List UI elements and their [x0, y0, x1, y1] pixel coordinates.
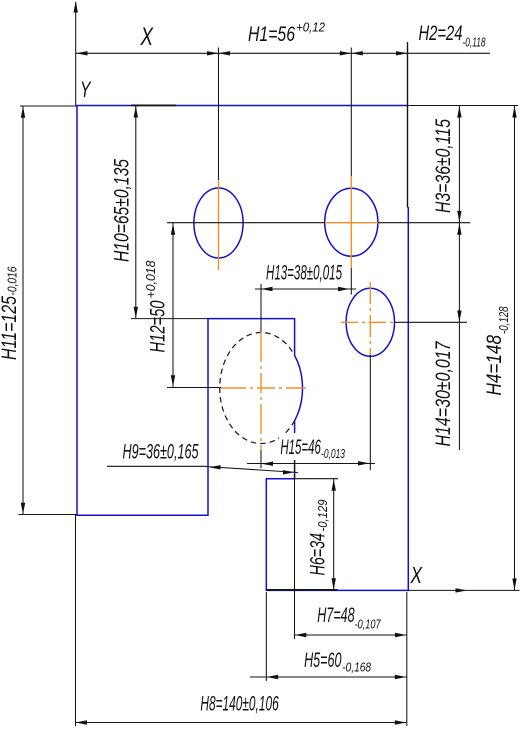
H14 arrows: [457, 223, 461, 235]
svg-text:H8=140±0,106: H8=140±0,106: [200, 693, 278, 716]
H9 text underline: [107, 465, 206, 467]
svg-text:-0,129: -0,129: [315, 500, 330, 532]
svg-text:-0,107: -0,107: [355, 617, 382, 632]
H10 bottom terminal (step edge extension): [131, 318, 208, 320]
centerline E2 horizontal (orange): [325, 222, 378, 224]
svg-text:+0,018: +0,018: [143, 260, 158, 299]
H5 left extension: [265, 592, 267, 681]
svg-text:H2=24: H2=24: [419, 22, 463, 45]
svg-text:+0,12: +0,12: [296, 20, 326, 35]
svg-text:H4=148: H4=148: [483, 335, 506, 396]
centerline E4 vertical (orange dash-dot): [260, 332, 262, 450]
H8 left extension: [75, 515, 77, 726]
svg-text:H11=125: H11=125: [0, 296, 21, 360]
svg-text:-0,118: -0,118: [463, 35, 486, 50]
H12 arrows: [171, 223, 175, 235]
H11 bottom terminal: [19, 514, 78, 516]
svg-text:H5=60: H5=60: [304, 649, 342, 672]
centerline E3 vertical (orange dash-dot): [369, 282, 371, 355]
H8/H7/H5 right extension: [406, 592, 408, 726]
top dimension line (X, H1, H2): [76, 52, 490, 54]
black overlay on bottom edge (H6 terminal): [266, 589, 337, 591]
centerline E4 horizontal (orange dash-dot): [221, 387, 306, 389]
centerline E3 horizontal (orange dash-dot): [341, 321, 394, 323]
H12 dimension line: [172, 223, 174, 387]
E3 horizontal extension right (H14 terminal): [394, 321, 467, 323]
H7 arrows: [295, 633, 307, 637]
H2 right arrow at 407.5: [396, 51, 408, 55]
svg-text:-0,168: -0,168: [342, 660, 371, 675]
H3 arrows: [457, 106, 461, 118]
svg-text:H9=36±0,165: H9=36±0,165: [123, 441, 199, 464]
X dim right / H1 left arrows at 218.5: [207, 51, 219, 55]
svg-text:H3=36±0,115: H3=36±0,115: [432, 119, 455, 213]
svg-text:H12=50: H12=50: [146, 300, 169, 352]
H15 arrows: [262, 462, 274, 466]
H6 dimension line: [333, 479, 335, 590]
extension E2 center up: [350, 48, 352, 177]
H9 arrows: [209, 465, 221, 469]
svg-text:H14=30±0,017: H14=30±0,017: [432, 341, 455, 447]
long horizontal through ellipse centers y=222.7: [167, 222, 325, 224]
E4 center up extension (H13 left): [260, 284, 262, 332]
svg-text:H1=56: H1=56: [248, 23, 295, 46]
H7 dimension line: [294, 634, 406, 636]
svg-text:-0,016: -0,016: [4, 266, 19, 296]
H1 right / H2 left arrows at 351.3: [340, 51, 352, 55]
H11 arrows: [21, 106, 25, 118]
H4 dimension line: [514, 106, 516, 590]
H5 dimension line: [250, 676, 407, 678]
H6 arrows: [332, 479, 336, 491]
svg-text:X: X: [410, 562, 423, 588]
Y axis arrow up: [74, 1, 78, 13]
X axis arrow right: [456, 588, 468, 592]
part outline (blue): [77, 106, 408, 591]
H12 bottom terminal: [167, 387, 221, 389]
centerline E1 vertical (orange): [218, 180, 220, 270]
H13 arrows: [261, 287, 273, 291]
H5 arrows: [267, 675, 279, 679]
H7 left extension / H9 right extension: [294, 461, 296, 639]
H8 dimension line: [75, 722, 407, 724]
E4 center down extension (H15 left): [260, 450, 262, 468]
H6 top terminal: [295, 478, 338, 480]
hole E2 top-right ellipse: [325, 188, 378, 256]
top-right terminal y=105.5: [408, 105, 518, 107]
svg-text:H15=46: H15=46: [280, 436, 321, 459]
svg-text:H7=48: H7=48: [317, 604, 354, 627]
H11 top terminal: [20, 105, 77, 107]
black overlay on top edge (H10 terminal overrun): [131, 104, 176, 106]
svg-text:X: X: [140, 23, 154, 51]
H13 dimension line: [255, 288, 356, 290]
svg-text:Y: Y: [80, 77, 91, 102]
centerline E2 vertical (orange): [350, 176, 352, 268]
X dim left arrow: [76, 51, 88, 55]
H10 arrows: [134, 106, 138, 118]
H11 dimension line: [22, 106, 24, 515]
svg-text:-0,013: -0,013: [321, 446, 345, 461]
svg-text:H10=65±0,135: H10=65±0,135: [110, 159, 133, 262]
hole E1 top-left ellipse: [194, 188, 243, 258]
Y axis line: [75, 2, 77, 106]
E2 center down extension (H13 right): [350, 268, 352, 295]
H4 arrows: [512, 106, 516, 118]
hole E3 mid-right ellipse: [346, 288, 394, 356]
svg-text:H6=34: H6=34: [306, 533, 329, 576]
svg-text:H13=38±0,015: H13=38±0,015: [266, 262, 342, 285]
H9 dimension line (sloped): [206, 467, 298, 473]
extension right edge (H2): [407, 42, 409, 208]
H15 dimension line: [247, 463, 375, 465]
hidden hole E4 (dashed ellipse): [220, 333, 295, 444]
H10 dimension line: [135, 106, 137, 318]
white knockout under H15 label: [279, 433, 347, 460]
X axis line: [408, 589, 519, 591]
E3 center down extension (H15 right): [369, 355, 371, 470]
extension E1 center up: [218, 48, 220, 181]
H8 arrows: [76, 720, 88, 724]
svg-text:-0,128: -0,128: [496, 306, 511, 334]
H3 / H14 dimension line: [458, 106, 460, 450]
